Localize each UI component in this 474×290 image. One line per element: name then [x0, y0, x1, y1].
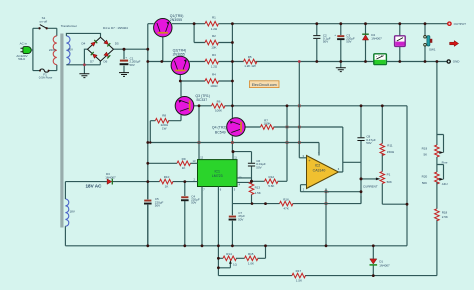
svg-text:D6: D6 — [104, 59, 108, 63]
svg-text:50V: 50V — [191, 201, 196, 205]
potentiometer R20 ADJ — [422, 157, 448, 186]
svg-text:D4 to D7 : 1N5404: D4 to D7 : 1N5404 — [103, 26, 128, 30]
svg-text:R17: R17 — [296, 269, 302, 273]
svg-text:AC in: AC in — [20, 41, 28, 45]
capacitor C5 — [144, 182, 164, 246]
svg-text:18V: 18V — [70, 210, 75, 214]
svg-text:50Hz: 50Hz — [18, 57, 26, 61]
svg-text:R10: R10 — [164, 175, 170, 179]
ammeter M2 — [374, 54, 387, 65]
svg-text:1N4007: 1N4007 — [379, 263, 390, 267]
wire Vplus line — [148, 143, 319, 156]
resistor R5 — [244, 55, 257, 68]
svg-text:1W: 1W — [162, 126, 167, 130]
svg-text:50V: 50V — [129, 63, 134, 67]
svg-text:R12: R12 — [269, 175, 275, 179]
svg-text:IC1: IC1 — [214, 170, 220, 174]
svg-text:on-off: on-off — [39, 20, 47, 24]
wire bottom common line — [65, 204, 407, 246]
transformer T1 — [49, 24, 77, 228]
svg-text:+: + — [125, 56, 127, 60]
svg-text:50V: 50V — [323, 40, 328, 44]
wire raw+ vertical — [147, 24, 149, 246]
switch S1 — [33, 16, 57, 30]
diode D2 — [362, 24, 382, 62]
wire op-amp pin4 — [325, 189, 327, 246]
wire op-amp -input loop — [301, 185, 362, 192]
potentiometer P1 — [361, 106, 407, 204]
ground at C3 — [336, 62, 346, 72]
bridge rectifier D4-D7 — [82, 26, 129, 63]
capacitor C3 — [334, 24, 355, 62]
svg-text:1K: 1K — [182, 166, 186, 170]
resistor R10 — [148, 175, 198, 188]
svg-text:BC549: BC549 — [215, 131, 226, 135]
wire output sense vertical — [231, 24, 233, 106]
switch SW1 — [424, 24, 436, 62]
resistor R9 — [148, 157, 198, 170]
wire top rail — [172, 23, 448, 25]
svg-text:R13: R13 — [255, 185, 261, 189]
svg-text:50V: 50V — [238, 217, 243, 221]
svg-text:18V AC: 18V AC — [86, 184, 103, 189]
wire IC1 right pins — [237, 178, 252, 183]
resistor R14 — [218, 246, 237, 276]
svg-text:IC2: IC2 — [315, 163, 321, 167]
svg-text:R9: R9 — [182, 157, 186, 161]
wire IC1 pin12 — [198, 106, 200, 160]
transformer 18V winding — [65, 199, 74, 226]
resistor R15 — [236, 246, 266, 265]
IC U1 LM723 — [193, 156, 243, 192]
capacitor C6 — [248, 159, 266, 181]
svg-text:+: + — [334, 33, 336, 37]
resistor R4 — [205, 73, 218, 88]
wire R2 branch — [194, 24, 232, 43]
svg-text:100K: 100K — [215, 109, 222, 113]
wire IC1 bottom pins — [202, 187, 232, 246]
wire 30V secondary to bridge — [66, 33, 100, 64]
svg-text:Transformer: Transformer — [61, 24, 77, 28]
transistor Q4 BC549 — [212, 106, 261, 152]
svg-text:R3: R3 — [212, 53, 216, 57]
svg-text:2N3055: 2N3055 — [173, 52, 185, 56]
wire ADJ node line — [199, 106, 407, 204]
svg-text:R19: R19 — [422, 146, 428, 150]
capacitor C7 — [229, 204, 246, 246]
watermark ElecCircuit.com — [250, 81, 280, 88]
svg-text:1.2K 1W: 1.2K 1W — [244, 64, 256, 68]
svg-text:1.2Ω: 1.2Ω — [211, 65, 218, 69]
svg-text:5.6K: 5.6K — [268, 184, 274, 188]
svg-text:1.5K: 1.5K — [296, 279, 302, 283]
svg-text:D4: D4 — [82, 42, 86, 46]
svg-text:R5: R5 — [248, 55, 252, 59]
resistor R7 — [261, 118, 343, 172]
svg-text:D5: D5 — [115, 42, 119, 46]
wire bridge DC+ — [114, 48, 148, 50]
svg-text:1N4007: 1N4007 — [371, 36, 382, 40]
op-amp U2 CA3140 — [303, 151, 340, 194]
resistor R11 — [380, 143, 395, 155]
svg-text:50K: 50K — [422, 181, 427, 185]
ground at bridge — [79, 65, 89, 78]
resistor R8 — [150, 113, 181, 142]
resistor R2 — [205, 34, 218, 49]
svg-text:5K: 5K — [424, 153, 428, 157]
wire IC1 pin11 node — [233, 152, 252, 163]
diode D1 — [370, 246, 391, 276]
svg-text:30V: 30V — [68, 48, 73, 52]
svg-text:OUTPUT: OUTPUT — [454, 22, 467, 26]
svg-text:GND: GND — [453, 60, 461, 64]
svg-text:50V: 50V — [346, 40, 351, 44]
svg-text:100K: 100K — [263, 122, 270, 126]
voltmeter M1 — [395, 24, 406, 62]
resistor R16 and sense line — [232, 196, 361, 211]
svg-text:R1: R1 — [212, 15, 216, 19]
wire op-amp output — [339, 106, 362, 204]
svg-text:2.5K: 2.5K — [442, 215, 448, 219]
svg-text:100Ω: 100Ω — [210, 84, 218, 88]
svg-text:Fine: Fine — [442, 160, 448, 164]
svg-text:1K: 1K — [165, 185, 169, 189]
svg-text:R20: R20 — [422, 175, 428, 179]
svg-text:R15: R15 — [248, 252, 254, 256]
svg-text:1.5K: 1.5K — [255, 191, 261, 195]
AC plug P — [16, 41, 32, 61]
fuse F1 — [39, 69, 53, 79]
svg-text:1.0K: 1.0K — [248, 261, 254, 265]
ground at C1 — [119, 73, 129, 77]
capacitor C8 — [357, 135, 375, 145]
svg-text:1.2Ω: 1.2Ω — [211, 27, 218, 31]
svg-text:R11: R11 — [387, 143, 393, 147]
wire R4 base line — [180, 80, 232, 82]
svg-text:2N3055: 2N3055 — [170, 18, 182, 22]
resistor R12 — [252, 106, 288, 188]
resistor R3 — [205, 53, 218, 68]
svg-text:47K: 47K — [284, 207, 289, 211]
transistor Q2 2N3055 — [171, 49, 189, 81]
capacitor C1 — [120, 49, 141, 72]
svg-text:ADJ: ADJ — [442, 182, 448, 186]
svg-text:ElecCircuit.com: ElecCircuit.com — [252, 83, 277, 87]
svg-text:SW1: SW1 — [429, 48, 436, 52]
svg-text:50V: 50V — [256, 165, 261, 169]
svg-text:220V: 220V — [49, 48, 56, 52]
wire emitter rail — [148, 61, 447, 63]
svg-text:1N4007: 1N4007 — [105, 175, 116, 179]
capacitor C2 — [313, 24, 331, 62]
tap wire at R14 — [218, 260, 231, 268]
svg-text:CA3140: CA3140 — [313, 168, 326, 172]
svg-text:R2: R2 — [212, 34, 216, 38]
terminal OUTPUT — [448, 22, 466, 26]
resistor R13 — [249, 181, 261, 203]
svg-text:50K: 50K — [387, 180, 392, 184]
annotation arrow — [450, 41, 459, 47]
terminal GND — [447, 60, 460, 64]
diode D3 and 18V AC line — [65, 172, 147, 199]
capacitor C4 — [181, 182, 200, 246]
transistor Q3 BC337 — [175, 81, 210, 121]
resistor R6 — [212, 99, 225, 112]
svg-text:R6: R6 — [217, 99, 221, 103]
svg-text:Q4 (TR2): Q4 (TR2) — [212, 126, 227, 130]
wire AC loop — [33, 28, 57, 70]
svg-text:BC337: BC337 — [197, 98, 208, 102]
svg-text:R18: R18 — [442, 210, 448, 214]
transistor Q1 2N3055 — [148, 14, 184, 61]
wire op-amp +input — [299, 62, 306, 158]
svg-text:D7: D7 — [90, 59, 94, 63]
svg-text:R16: R16 — [283, 198, 289, 202]
svg-text:150Ω: 150Ω — [387, 150, 395, 154]
svg-text:R4: R4 — [212, 73, 216, 77]
resistor R17 — [218, 269, 437, 283]
resistor R18 — [435, 182, 448, 276]
potentiometer R19 Fine — [422, 62, 448, 165]
svg-text:50V: 50V — [366, 141, 371, 145]
svg-text:P1: P1 — [387, 173, 391, 177]
svg-text:10K: 10K — [211, 46, 216, 50]
svg-text:R8: R8 — [162, 113, 166, 117]
svg-text:50V: 50V — [155, 204, 160, 208]
resistor R1 — [205, 15, 218, 30]
crossover marks — [198, 105, 328, 205]
svg-text:R14: R14 — [226, 252, 232, 256]
svg-text:LM723: LM723 — [212, 174, 223, 178]
svg-text:0.5A Fuse: 0.5A Fuse — [39, 75, 53, 79]
svg-text:CURRENT: CURRENT — [363, 185, 378, 189]
